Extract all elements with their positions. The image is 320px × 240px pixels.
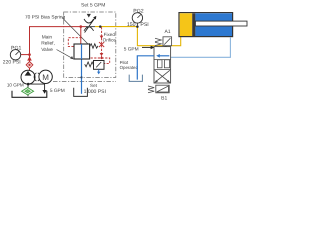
piston rod (195, 21, 247, 26)
svg-text:A1: A1 (164, 29, 170, 35)
coupling pump-motor (34, 73, 40, 81)
svg-text:Relief,: Relief, (41, 41, 55, 47)
leader arrow from boundary to flow control (87, 14, 91, 18)
svg-text:5 GPM: 5 GPM (50, 88, 65, 94)
node: junction pump line / PG1 (28, 53, 31, 56)
middle section blocked ports (157, 60, 162, 68)
pilot flow arrowheads (100, 36, 104, 39)
svg-text:5 GPM: 5 GPM (124, 47, 139, 53)
blue flow arrow inside valve (159, 55, 170, 57)
cylinder C1 body (179, 13, 247, 37)
relief spring (90, 44, 98, 48)
pilot relief drain stub (blue) (98, 69, 100, 72)
pilot dashes upper (to main spool) (68, 38, 81, 47)
node: blue crossing boundary (80, 76, 82, 78)
svg-text:PG1: PG1 (11, 46, 21, 52)
element E1: check/flow element at A1 (155, 37, 172, 46)
pilot relief valve spring (85, 62, 94, 67)
svg-text:PSI: PSI (140, 22, 148, 28)
pilot line red dashed from yellow line (101, 27, 103, 58)
filter / strainer (green diamond) (22, 88, 34, 95)
blue path inside relief (81, 44, 83, 59)
wire: pump pressure line (red) (30, 27, 86, 71)
pressure gauge PG1 (10, 50, 20, 60)
leader line to relief box (57, 50, 73, 59)
wire: suction line (27, 84, 29, 96)
tank T3 (pilot/valve drain) (129, 75, 142, 82)
X section (crossed arrows) (155, 70, 170, 82)
svg-text:150: 150 (127, 22, 136, 28)
check valve (red diamond) on pump line (26, 62, 33, 69)
pilot dashes to pilot relief (right) (102, 58, 110, 63)
node: yellow junction at valve A1 (164, 44, 167, 47)
node: yellow junction at PG2 (136, 25, 139, 28)
node: junction on red line (80, 25, 83, 28)
main relief valve box (74, 44, 90, 59)
pilot relief valve box (94, 61, 105, 70)
node: pilot junction (100, 57, 102, 59)
svg-text:B1: B1 (161, 96, 167, 102)
svg-text:Set 5 GPM: Set 5 GPM (81, 2, 105, 8)
wire: yellow reduced-pressure line (86, 26, 96, 28)
svg-text:70 PSI Bias Spring: 70 PSI Bias Spring (25, 15, 66, 21)
tank T1 (12, 91, 47, 98)
svg-text:Orifice: Orifice (103, 37, 117, 42)
node: pump bottom junction (27, 83, 30, 86)
wire: drain line to tank (28, 84, 44, 90)
svg-text:Valve: Valve (41, 47, 53, 53)
svg-text:10 GPM: 10 GPM (7, 82, 24, 87)
pilot dashes to spring chamber (left) (87, 57, 102, 59)
node: yellow junction at pilot tap (99, 25, 102, 28)
drain arrowhead (42, 90, 46, 94)
svg-text:PG2: PG2 (133, 8, 143, 14)
fixed orifice (red X) (99, 42, 104, 47)
svg-text:Main: Main (42, 34, 53, 40)
motor M1 (39, 70, 52, 83)
element E3: counterbalance check below valve (148, 85, 169, 93)
main directional valve box (154, 47, 171, 83)
flow arrow up on pump line (27, 56, 32, 60)
adjustable flow control (arcs) (84, 19, 94, 31)
wire: blue return from valve to tank T3 (137, 56, 154, 80)
wire: rod-side return (pale blue) (171, 37, 231, 57)
leader line bias spring (62, 18, 89, 45)
boundary (dash-dot assembly box) (53, 12, 116, 81)
pressure gauge PG2 (132, 13, 142, 26)
wire: red supply drop to main relief (80, 27, 82, 44)
wire: PG1 branch (red) (21, 54, 30, 56)
annotation arrow (142, 46, 151, 48)
svg-text:Set: Set (90, 83, 98, 88)
wire: blue through relief to tank (81, 44, 83, 94)
svg-text:M: M (42, 73, 49, 82)
svg-text:Operated: Operated (120, 65, 139, 70)
tank T2 (main relief drain) (74, 88, 88, 97)
flow control arrow (85, 18, 95, 32)
svg-text:220 PSI: 220 PSI (3, 60, 21, 66)
pump P1 (21, 70, 35, 84)
